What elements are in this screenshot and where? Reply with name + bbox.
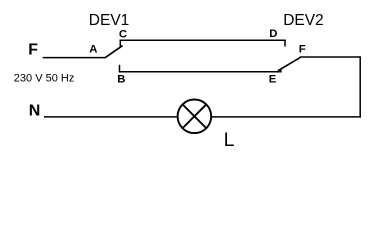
wire C to D (top traveler) <box>120 39 286 41</box>
switch DEV1 pin B stub <box>119 65 121 73</box>
svg-text:DEV2: DEV2 <box>283 12 324 29</box>
lamp L cross stroke 1 <box>183 105 206 128</box>
switch DEV2 pin E stub <box>280 69 282 73</box>
svg-text:D: D <box>269 28 277 40</box>
svg-text:N: N <box>29 103 41 120</box>
svg-text:C: C <box>119 28 127 40</box>
svg-text:DEV1: DEV1 <box>89 12 130 29</box>
svg-text:E: E <box>269 74 277 86</box>
wire right vertical segment <box>359 56 361 117</box>
svg-text:F: F <box>299 44 306 56</box>
switch DEV1 pin C stub <box>119 40 121 47</box>
svg-text:230 V 50 Hz: 230 V 50 Hz <box>14 73 75 85</box>
lamp L circle <box>178 100 212 134</box>
wire B to E (bottom traveler) <box>119 71 282 73</box>
switch DEV2 pin D stub <box>284 40 286 47</box>
svg-text:F: F <box>28 42 38 59</box>
wire F to switch DEV1 pin A <box>43 57 106 59</box>
wire N to lamp <box>44 116 178 118</box>
switch DEV2 lever E to F <box>278 57 301 71</box>
wire right corner to lamp <box>212 116 361 118</box>
wire DEV2 pin F to right corner <box>300 56 360 58</box>
switch DEV1 lever A to C <box>105 46 123 58</box>
svg-text:A: A <box>89 43 97 55</box>
svg-text:B: B <box>117 73 125 85</box>
svg-text:L: L <box>224 129 235 151</box>
lamp L cross stroke 2 <box>183 105 206 128</box>
